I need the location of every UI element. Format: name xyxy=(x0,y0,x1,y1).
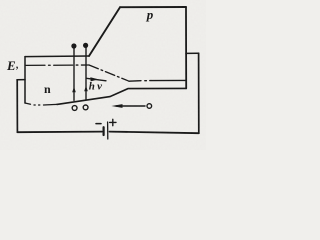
junction dash-dot slope xyxy=(89,65,129,81)
junction line along neck xyxy=(129,80,141,83)
bottom edge: left corner solid bit xyxy=(25,103,31,104)
wire: bottom right segment from battery plus plate xyxy=(110,132,199,134)
current carrier circle xyxy=(147,104,152,109)
wire: right vertical up xyxy=(198,53,200,133)
flare diagonal up to p-plate xyxy=(89,7,120,56)
electron dot 2 xyxy=(83,43,88,48)
wire: right tap to p-plate xyxy=(186,52,199,54)
photon arrowhead xyxy=(90,77,98,81)
battery B1 long positive plate xyxy=(107,122,109,139)
electron dot 1 xyxy=(71,43,76,48)
p-plate top edge xyxy=(120,6,186,8)
battery minus sign xyxy=(96,123,101,125)
n-block left edge xyxy=(24,57,26,103)
bottom edge: rising solid to neck and neck bottom xyxy=(57,88,186,104)
p-plate right edge xyxy=(185,7,187,88)
electron trajectory line 2 xyxy=(85,47,87,100)
paper texture xyxy=(0,0,1,1)
electron arrowhead up 1 xyxy=(72,87,76,93)
electron trajectory line 1 xyxy=(73,47,75,100)
wire: bottom left segment to battery minus plate xyxy=(17,131,102,134)
bottom edge: dash-dot portion xyxy=(34,103,57,106)
wire: left lead from n-electrode step xyxy=(17,79,25,81)
n-block top edge xyxy=(25,55,89,58)
junction dash-dot horizontal xyxy=(26,64,89,66)
battery B1 short negative plate xyxy=(102,127,104,135)
circuit current arrow shaft xyxy=(116,105,145,107)
battery plus sign xyxy=(110,119,116,125)
electron arrowhead up 2 xyxy=(84,86,88,92)
photon arrow shaft hv xyxy=(86,78,106,81)
wire: left vertical down to battery line xyxy=(16,80,18,132)
current arrowhead left xyxy=(111,104,122,108)
hole circle 1 xyxy=(72,106,77,111)
hole circle 2 xyxy=(83,105,88,110)
